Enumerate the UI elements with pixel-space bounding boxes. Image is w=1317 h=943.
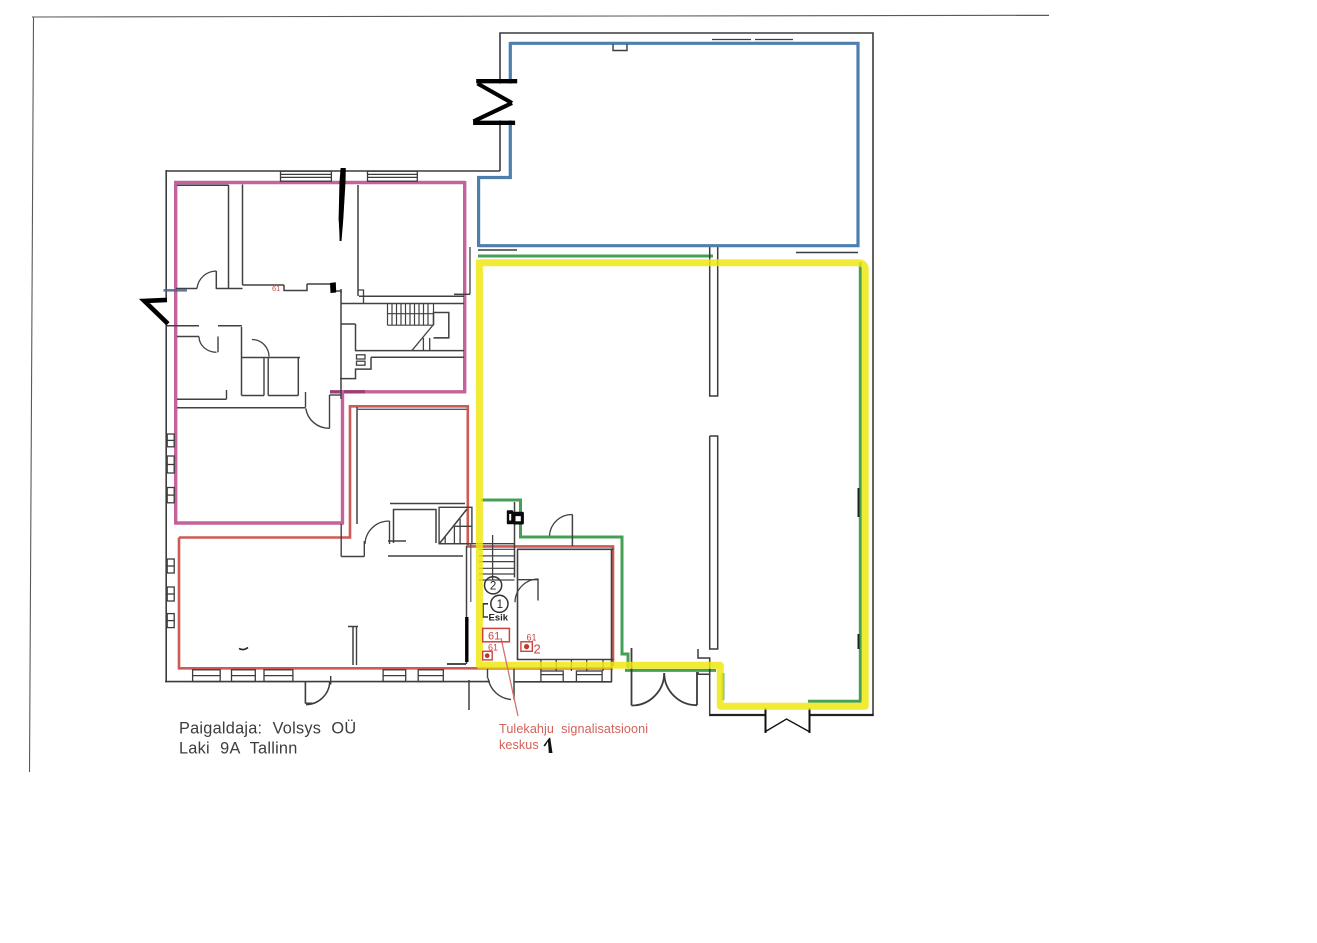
curve pen mark (239, 648, 248, 650)
door leaf (389, 521, 391, 544)
room2 left wall (242, 185, 244, 286)
green detour at staircase (481, 500, 628, 668)
wall y288 segment (216, 288, 243, 290)
door arc pink room (306, 409, 330, 429)
pink room bottom (174, 521, 344, 524)
tread top line (439, 543, 514, 545)
black wall piece above yellow top right (796, 252, 858, 254)
door arc to WC corridor (365, 521, 390, 544)
red box 61 (483, 628, 510, 641)
stub y324 (341, 323, 356, 325)
right door leaf arc (664, 673, 697, 705)
wall x341 down to pink (340, 289, 342, 399)
bottom wall door arc left (304, 682, 306, 704)
wall stub left of esik (447, 663, 466, 665)
scan page border top (32, 15, 1049, 17)
svg-text:Esik: Esik (489, 613, 509, 624)
door arc small room (252, 340, 269, 357)
corridor band line 1 (359, 295, 464, 297)
door leaf vertical (513, 667, 515, 700)
corridor band line 2 (341, 303, 464, 305)
window band 1 (193, 670, 221, 682)
chevron door mark left wall (144, 300, 168, 324)
outer border top-right block (500, 33, 873, 715)
circle 2 (485, 577, 502, 594)
wall step (284, 284, 307, 291)
left building left wall upper (165, 170, 167, 300)
pink mid vertical (341, 390, 344, 524)
red loop lower-left zone (179, 406, 613, 668)
stairs upper hatch (388, 304, 434, 326)
corridor wall x358 (357, 185, 359, 296)
thin black line above blue top (712, 39, 751, 41)
pink mid horizontal (341, 390, 466, 393)
left jamb (631, 648, 633, 706)
bracket near 1 (483, 604, 488, 617)
wall x241 (241, 327, 243, 396)
office top wall (517, 548, 614, 550)
red box3 with detector dot (483, 651, 493, 660)
thick vertical pen stroke (339, 168, 346, 241)
blue top notch (613, 44, 627, 51)
pink mid horizontal dark overlap (330, 390, 365, 393)
door V symbol (766, 719, 810, 732)
svg-text:Paigaldaja: Volsys OÜ: Paigaldaja: Volsys OÜ (179, 720, 356, 738)
green loop right edge (859, 262, 862, 700)
handwritten 1 (544, 738, 553, 753)
bottom door arc (esik south) (488, 678, 511, 700)
mid wall stub bottom (348, 627, 358, 666)
winder hatches (444, 536, 446, 543)
window band 3 (541, 671, 563, 682)
WC room (394, 510, 437, 544)
esik wall under b mark (514, 502, 516, 578)
left door leaf arc (632, 673, 665, 706)
corridor lower wall (371, 356, 464, 358)
blue-gray tick crossing pink (164, 289, 188, 292)
red leader line (501, 638, 518, 716)
svg-text:2: 2 (490, 581, 496, 593)
hall-entry door arc (550, 514, 573, 535)
circle 1 (491, 595, 508, 612)
hall interior wall lower segment (710, 436, 718, 649)
stairs mid rail (388, 313, 434, 315)
window band 2 (383, 670, 406, 682)
wall x355 segment (355, 324, 357, 351)
room1 right wall (228, 185, 230, 289)
svg-text:1: 1 (497, 599, 503, 611)
room1 door arc (197, 271, 216, 289)
wall y407.5 with door (177, 407, 306, 409)
door jamb below esik (468, 680, 470, 710)
wall right of pen blob (336, 291, 341, 293)
office right wall (611, 549, 613, 682)
wall y282 segments (243, 284, 285, 286)
hall bottom wall (709, 714, 766, 716)
svg-text:61: 61 (272, 284, 280, 293)
esik door arc (515, 579, 539, 602)
wall y503 (390, 503, 465, 505)
black pen dash esik left (465, 617, 468, 662)
svg-text:Laki 9A Tallinn: Laki 9A Tallinn (179, 740, 298, 758)
stair landing box (434, 313, 449, 338)
jamb at x487 (487, 668, 489, 678)
black wall behind yellow right edge (858, 488, 860, 517)
black tick under blue bottom left (478, 249, 517, 251)
left building left wall lower (165, 324, 167, 683)
connect wall y294 (454, 293, 470, 295)
door tick left (765, 708, 767, 733)
office left wall (517, 549, 519, 660)
wall x357 (356, 407, 358, 524)
hall wall to bottom (709, 674, 711, 715)
small room walls (242, 357, 301, 359)
winder stairs diagonal (440, 509, 468, 544)
svg-text:2: 2 (534, 642, 541, 657)
vestibule walls (388, 540, 406, 542)
svg-text:61: 61 (488, 631, 500, 643)
esik left wall black (466, 546, 468, 664)
bottom wall segments (165, 681, 490, 683)
lower-left room top wall (167, 325, 199, 327)
pink left edge (174, 181, 177, 524)
door arc lower-left room (199, 337, 217, 353)
tread divider (492, 535, 494, 580)
stair lower steps (422, 338, 424, 351)
hall interior wall upper segment (710, 247, 718, 396)
svg-text:Tulekahju signalisatsiooni: Tulekahju signalisatsiooni (499, 722, 648, 736)
svg-text:keskus: keskus (499, 738, 539, 752)
pink right edge (463, 181, 466, 393)
red box2 with detector dot (521, 642, 532, 652)
wall y409 under red (357, 408, 467, 410)
pen blob lower (330, 282, 336, 293)
green segment along bottom of Esik wall (625, 669, 716, 672)
break symbol top left of blue (496, 84, 515, 121)
left building top wall (166, 170, 500, 172)
hall-entry door leaf (571, 515, 573, 547)
hall wall notch (698, 649, 710, 674)
closet lines (517, 580, 538, 601)
b handwritten mark (507, 510, 524, 524)
radiator boxes (357, 355, 366, 359)
stair diagonal (412, 325, 434, 351)
passage walls below pink room (340, 524, 342, 557)
office bottom wall (517, 659, 614, 661)
scan page border left (30, 17, 34, 772)
right jamb (696, 672, 698, 705)
pink top edge (174, 181, 465, 184)
room1 bottom wall left (176, 288, 197, 290)
wall below stairs (355, 350, 464, 352)
room2 right wall (339, 185, 341, 242)
esik treads (479, 549, 515, 580)
room1 door leaf (215, 271, 217, 289)
green bottom-right segment (808, 700, 862, 703)
green loop top edge (478, 255, 713, 258)
door tick right (809, 708, 811, 733)
winder stairs box (439, 507, 472, 543)
stairs bottom edge (388, 324, 434, 326)
room1 top wall (177, 184, 229, 186)
corridor jog (358, 290, 364, 304)
step shape left of corridor (340, 357, 371, 378)
